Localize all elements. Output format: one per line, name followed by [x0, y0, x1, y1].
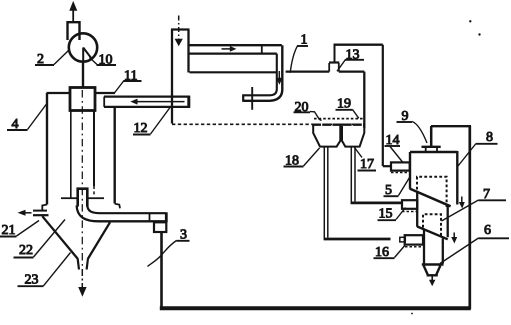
arrow down at plate 1 — [459, 197, 465, 209]
label 10 — [90, 53, 117, 68]
dashed level line 19 — [314, 118, 364, 120]
downleg inner wall and J-bend inner — [244, 54, 277, 96]
hopper 18 left — [313, 125, 340, 146]
label 16 — [374, 245, 405, 260]
svg-text:8: 8 — [486, 130, 493, 145]
duct inner top line — [189, 52, 277, 54]
speck — [478, 33, 480, 35]
label 9 — [397, 109, 428, 143]
inlet box 14 — [391, 162, 410, 170]
right loop riser — [468, 126, 471, 309]
riser pipe from box 3 — [160, 232, 163, 307]
inclined plate 1 — [410, 189, 451, 207]
wire blower to box — [82, 62, 84, 88]
label 11 — [114, 69, 142, 94]
label 19 — [336, 97, 359, 119]
flange tick on pipe — [149, 213, 151, 222]
label 6 — [440, 223, 509, 264]
left flow arrow in pipe 12 — [130, 99, 184, 105]
arrow down at plate 2 — [451, 233, 457, 244]
top loop line to nozzle 9 — [431, 125, 471, 127]
pipe top horizontal — [334, 44, 383, 46]
box 16 hidden edge dashed — [405, 246, 423, 248]
column 4 right wall — [113, 108, 115, 204]
separator wall C left — [423, 229, 425, 263]
pipe 12 horizontal with left arrow — [104, 96, 190, 108]
separator 8 left wall A — [409, 152, 411, 189]
discharge arrow down — [78, 269, 86, 297]
spout 23 — [78, 258, 88, 269]
label 14 — [385, 133, 403, 162]
chamber right wall — [363, 72, 365, 128]
box 15 hidden edge dashed — [402, 211, 417, 213]
inlet right wall — [187, 30, 189, 73]
support tick right — [89, 197, 105, 199]
label 5 — [384, 178, 410, 199]
chamber top edge — [286, 70, 330, 72]
inner tube left wall — [70, 111, 72, 199]
blower 10 chimney — [68, 22, 80, 40]
label 23 — [18, 253, 71, 288]
label 2 — [35, 51, 69, 68]
separator wall B right — [447, 206, 449, 237]
inlet box 16 — [405, 235, 423, 244]
inlet top edge — [171, 28, 190, 30]
svg-text:22: 22 — [19, 243, 33, 258]
label 8 — [458, 130, 498, 166]
J-pipe end cap — [242, 94, 244, 102]
bottom flange separator — [422, 263, 444, 265]
nozzle 21 on cone — [33, 205, 49, 216]
discharge funnel 6 — [424, 266, 441, 275]
blower outlet arrow up — [69, 1, 77, 22]
label 17 — [355, 148, 377, 173]
label 3 — [148, 228, 190, 267]
feed box 11 on column top — [70, 88, 95, 111]
column 4 top plate — [47, 92, 71, 94]
downpipe from hopper 17 — [351, 147, 402, 204]
svg-text:6: 6 — [484, 223, 491, 238]
feed arrow into duct — [175, 16, 183, 47]
arrow out left at 21 — [18, 210, 32, 216]
label 18 — [284, 148, 320, 169]
hopper 17 right — [342, 125, 364, 146]
nozzle 9 flange — [422, 147, 441, 152]
dashed opening 7 — [423, 214, 441, 235]
cone 22 left slope — [42, 216, 77, 258]
down arrow in leg — [276, 71, 283, 85]
dashed opening 5 — [417, 177, 447, 207]
label 15 — [378, 207, 406, 222]
duct tick — [261, 45, 263, 54]
elbow pipe to box 3 outer — [77, 206, 167, 222]
J-pipe cross tee — [251, 87, 253, 110]
pipe into box 14 — [383, 165, 391, 167]
label 12 — [133, 108, 170, 137]
inlet box 15 — [402, 200, 417, 209]
label 4 — [7, 104, 47, 132]
box 3 under pipe — [154, 222, 166, 232]
right flow arrow in duct — [222, 46, 237, 52]
label 7 — [442, 187, 507, 221]
separator 8 right wall A — [456, 151, 458, 205]
label 21 — [0, 221, 39, 239]
inclined plate 2 — [417, 227, 448, 240]
cone 22 right slope — [88, 222, 110, 258]
elbow pipe inner — [87, 206, 166, 214]
pipe down to nozzle 9 — [430, 126, 433, 146]
downpipe from hopper 18 — [324, 147, 406, 242]
outlet tube inside cyclone — [78, 189, 88, 207]
box 14 hidden edge dashed — [391, 172, 409, 174]
label 13 — [337, 48, 364, 72]
dryer duct 1 inlet left wall — [171, 30, 173, 124]
separator wall B left — [416, 191, 418, 227]
pipe from 13 up — [334, 46, 336, 63]
downleg outer wall and J-bend outer — [243, 45, 282, 101]
fluidized conveyor dashed line — [172, 123, 364, 125]
nozzle 13 — [329, 63, 339, 72]
separator 8 top edge — [410, 151, 457, 153]
pipe down to 14 — [382, 45, 384, 166]
support tick left — [61, 197, 77, 199]
label 22 — [14, 220, 66, 259]
blower vane wedge — [83, 48, 91, 62]
blower 10 circle — [69, 33, 97, 61]
pipe end cap — [165, 212, 168, 222]
inner tube right wall — [93, 111, 95, 187]
funnel arrow down — [429, 277, 435, 287]
duct mid line — [190, 71, 277, 73]
bottom loop line — [160, 306, 471, 310]
column right wall foot — [115, 204, 120, 209]
label 1 — [290, 33, 308, 73]
separator wall C right — [442, 239, 444, 264]
column 4 left wall — [46, 93, 48, 205]
duct 1 top edge — [189, 44, 282, 46]
label 20 — [294, 100, 322, 121]
column centerline — [81, 90, 83, 269]
